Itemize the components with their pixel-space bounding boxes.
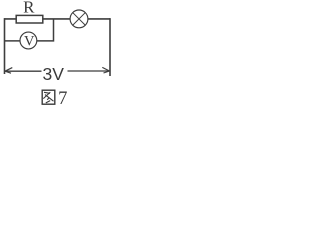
wire top horizontal	[5, 18, 111, 20]
lamp L1	[70, 10, 88, 28]
wire right vertical	[109, 18, 111, 76]
wire voltmeter branch	[5, 19, 54, 41]
label figure character tu	[42, 90, 55, 104]
svg-text:R: R	[23, 0, 35, 17]
dimension arrow right	[68, 67, 110, 73]
dimension arrow left	[5, 68, 42, 74]
svg-text:7: 7	[58, 89, 67, 106]
resistor R1	[16, 15, 43, 23]
wire left vertical	[4, 18, 6, 74]
svg-text:V: V	[24, 34, 35, 50]
voltmeter V1	[20, 32, 37, 50]
svg-text:3V: 3V	[42, 64, 64, 84]
